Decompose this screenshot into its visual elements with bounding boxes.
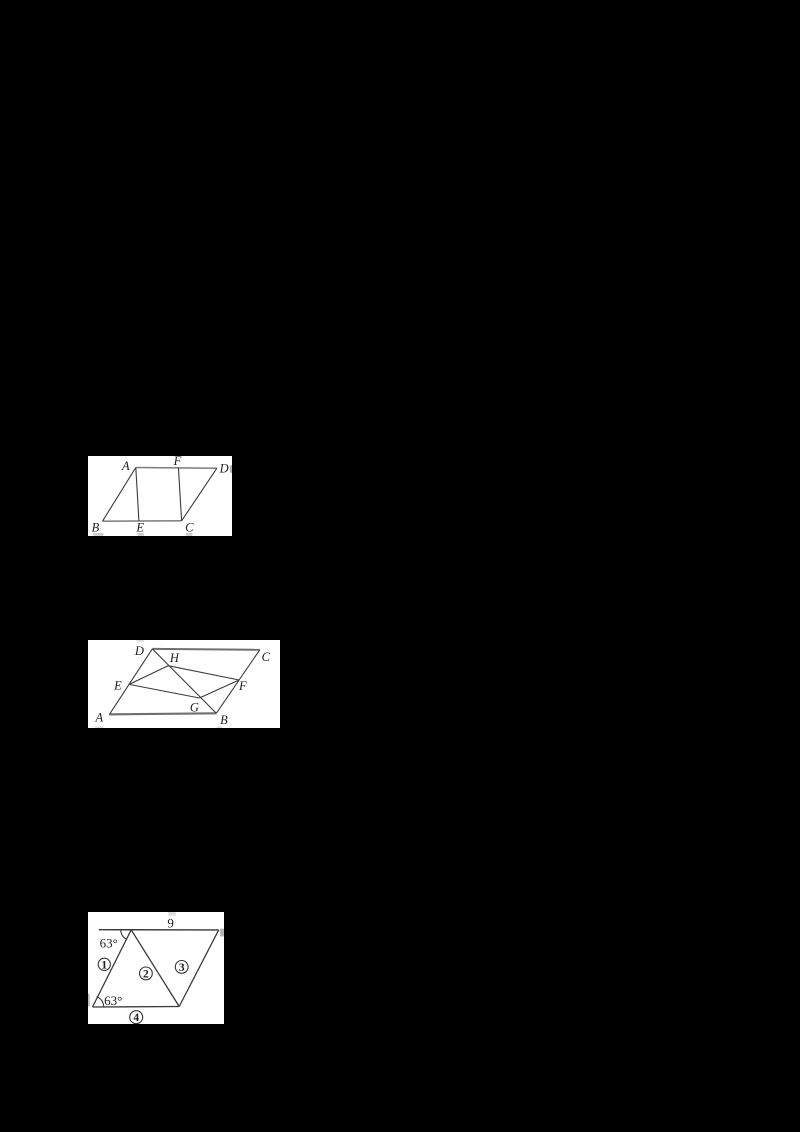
region mark 2 circle [140, 967, 153, 980]
svg-text:G: G [190, 700, 199, 714]
wire edge TR-BM [179, 930, 218, 1007]
svg-text:2: 2 [143, 968, 149, 980]
svg-text:E: E [113, 678, 122, 692]
angle arc at top vertex [121, 929, 127, 939]
figure panel 1: parallelogram ABCD with cevians AE, FC [88, 456, 232, 537]
wire edge T-BL [93, 929, 132, 1006]
svg-text:C: C [185, 520, 194, 534]
svg-text:F: F [238, 679, 247, 693]
svg-text:A: A [94, 710, 103, 724]
svg-text:D: D [134, 644, 144, 658]
scan mark under E [138, 533, 144, 536]
svg-text:B: B [92, 520, 100, 534]
svg-text:B: B [220, 713, 228, 727]
svg-text:63°: 63° [104, 993, 122, 1008]
svg-text:63°: 63° [100, 935, 118, 950]
scan mark right of D [230, 465, 232, 473]
wire segment H-F [168, 665, 239, 679]
wire edge B-C [216, 650, 259, 713]
wire bottom edge BL-BM [93, 1005, 180, 1008]
figure panel 2: parallelogram ABCD with diagonal DB and quad EHFG [88, 640, 280, 728]
svg-text:4: 4 [133, 1012, 139, 1024]
wire top edge A-D [136, 466, 217, 469]
wire segment E-G [129, 684, 199, 698]
scan mark right [220, 928, 224, 936]
wire edge D-C [182, 468, 217, 521]
scan mark bottom left [95, 726, 103, 728]
svg-text:3: 3 [179, 962, 185, 974]
wire bottom edge A-B [109, 713, 216, 714]
wire segment A-E [136, 467, 139, 520]
wire top line through T to TR [99, 928, 219, 930]
scan mark top [137, 640, 144, 642]
wire segment G-F [199, 680, 239, 698]
region mark 4 circle [130, 1010, 143, 1023]
scan mark under B [93, 533, 103, 536]
scan mark under C [186, 533, 192, 536]
wire edge A-D [109, 649, 152, 714]
scan mark under B [217, 726, 223, 728]
figure panel 3: parallelogram with diagonal, angles 63 deg, regions 1-4 [88, 912, 224, 1024]
wire edge A-B [103, 467, 136, 521]
region mark 3 circle [175, 960, 188, 973]
wire diagonal D-B [152, 649, 216, 713]
wire segment E-H [129, 665, 168, 684]
svg-text:D: D [219, 461, 229, 475]
wire diagonal T-BM [131, 929, 179, 1006]
svg-text:1: 1 [101, 959, 107, 971]
region mark 1 circle [98, 958, 110, 970]
svg-text:C: C [262, 650, 271, 664]
scan mark top [168, 912, 176, 916]
wire segment F-C [178, 467, 181, 520]
wire top edge D-C [152, 648, 259, 651]
angle arc at bottom-left vertex [97, 996, 104, 1006]
svg-text:F: F [173, 456, 182, 468]
svg-text:H: H [169, 651, 180, 665]
svg-text:A: A [121, 458, 130, 472]
wire bottom edge B-C [103, 519, 182, 521]
svg-text:9: 9 [167, 915, 174, 930]
scan mark left [88, 994, 90, 1007]
svg-text:E: E [135, 520, 144, 534]
